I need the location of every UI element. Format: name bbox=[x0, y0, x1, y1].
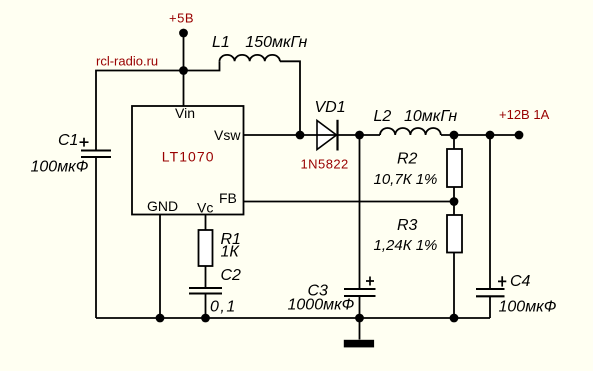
svg-text:R2: R2 bbox=[397, 150, 418, 167]
svg-text:0,1: 0,1 bbox=[210, 299, 237, 316]
svg-text:L2: L2 bbox=[374, 108, 392, 125]
svg-text:10,7К 1%: 10,7К 1% bbox=[374, 171, 438, 188]
svg-text:C4: C4 bbox=[510, 273, 531, 290]
svg-text:R3: R3 bbox=[397, 217, 418, 234]
svg-text:1К: 1К bbox=[221, 244, 241, 261]
svg-text:10мкГн: 10мкГн bbox=[404, 108, 457, 125]
svg-text:L1: L1 bbox=[212, 34, 230, 51]
svg-text:LT1070: LT1070 bbox=[162, 149, 215, 165]
svg-text:C1: C1 bbox=[58, 132, 78, 149]
svg-text:1N5822: 1N5822 bbox=[301, 157, 349, 172]
svg-text:+12В 1А: +12В 1А bbox=[499, 107, 550, 122]
svg-text:100мкФ: 100мкФ bbox=[499, 299, 557, 316]
svg-text:FB: FB bbox=[219, 190, 237, 206]
svg-text:Vc: Vc bbox=[197, 200, 213, 216]
svg-text:Vsw: Vsw bbox=[214, 127, 241, 143]
svg-text:1,24К 1%: 1,24К 1% bbox=[374, 237, 438, 254]
svg-text:VD1: VD1 bbox=[315, 99, 346, 116]
svg-text:C2: C2 bbox=[221, 267, 242, 284]
svg-text:GND: GND bbox=[147, 198, 178, 214]
svg-text:150мкГн: 150мкГн bbox=[245, 34, 307, 51]
svg-text:Vin: Vin bbox=[175, 105, 195, 121]
svg-text:100мкФ: 100мкФ bbox=[31, 159, 89, 176]
svg-text:rcl-radio.ru: rcl-radio.ru bbox=[96, 54, 158, 69]
svg-text:+5В: +5В bbox=[169, 10, 194, 25]
svg-text:1000мкФ: 1000мкФ bbox=[288, 297, 355, 314]
